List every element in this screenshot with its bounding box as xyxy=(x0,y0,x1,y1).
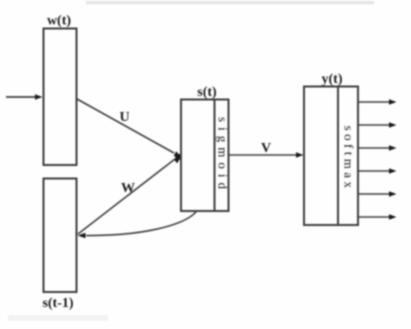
box s(t-1) xyxy=(44,179,77,293)
svg-text:U: U xyxy=(119,110,129,125)
output arrow 6 xyxy=(358,214,397,220)
input arrow xyxy=(6,94,43,100)
svg-text:sigmoid: sigmoid xyxy=(216,117,231,194)
box y(t) xyxy=(304,87,358,226)
svg-text:w(t): w(t) xyxy=(47,14,71,29)
faint bottom-left artifact xyxy=(8,315,108,321)
output arrow 2 xyxy=(358,122,397,128)
box s(t) xyxy=(181,100,229,212)
output arrow 3 xyxy=(358,145,397,151)
svg-text:W: W xyxy=(121,181,135,196)
svg-text:V: V xyxy=(261,141,271,156)
arrow V xyxy=(229,152,304,158)
output arrow 1 xyxy=(358,99,397,105)
output arrow 4 xyxy=(358,168,397,174)
faint top artifact band xyxy=(86,1,374,4)
line W with arrowhead into s(t) xyxy=(78,154,181,234)
svg-text:s(t-1): s(t-1) xyxy=(42,296,73,311)
line U with arrowhead into s(t) xyxy=(77,99,181,157)
output arrow 5 xyxy=(358,191,397,197)
svg-text:y(t): y(t) xyxy=(322,72,343,87)
recurrent curve from s(t) bottom to s(t-1) xyxy=(78,212,197,238)
box w(t) xyxy=(44,29,77,166)
svg-text:s(t): s(t) xyxy=(197,85,217,100)
svg-text:softmax: softmax xyxy=(342,126,357,192)
